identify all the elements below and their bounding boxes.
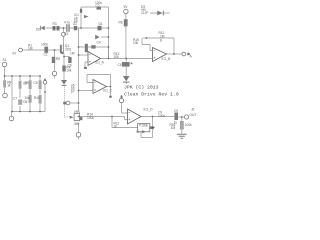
- left col3 comp bottom (diode): [18, 99, 22, 104]
- wire col4: [29, 76, 31, 112]
- connector circle top (drain): [61, 32, 65, 36]
- svg-text:C9: C9: [174, 109, 178, 113]
- svg-text:10k: 10k: [66, 69, 71, 73]
- wire left rail top: [5, 75, 42, 77]
- svg-text:4.7u: 4.7u: [64, 21, 70, 25]
- transistor Q1 source arrow: [61, 52, 63, 54]
- svg-text:100n: 100n: [41, 42, 48, 46]
- svg-text:10k: 10k: [133, 41, 138, 45]
- wire r12 top: [142, 38, 174, 54]
- wire col2: [11, 76, 14, 116]
- wire junction x54 down: [54, 50, 56, 71]
- wire input: [23, 49, 60, 51]
- electro cap at x127: [122, 62, 130, 67]
- wire op3 feedback: [87, 75, 111, 97]
- op1 plus bias mark: [84, 67, 87, 69]
- svg-text:10u: 10u: [25, 96, 30, 100]
- svg-text:1k: 1k: [136, 130, 140, 134]
- svg-text:50k: 50k: [74, 122, 79, 126]
- left col4 comp top: [29, 80, 32, 89]
- mark left of led circle: [63, 102, 66, 105]
- diode down x64: [61, 80, 67, 86]
- wire feedback op1 top: [79, 46, 109, 48]
- jack OUT1 circle: [182, 52, 186, 56]
- left col4 comp bottom: [29, 95, 32, 103]
- op-amp U1B: [153, 48, 167, 62]
- svg-text:D1: D1: [99, 22, 103, 26]
- svg-text:C9: C9: [34, 81, 38, 85]
- diode left (power): [40, 26, 45, 31]
- svg-text:Clean Drive Rev 1.0: Clean Drive Rev 1.0: [124, 92, 179, 98]
- op-amp U2A: [93, 80, 107, 94]
- diode vcc2: [157, 11, 164, 16]
- end mark op3 drop: [109, 96, 112, 98]
- svg-text:R5: R5: [56, 57, 60, 61]
- ground symbol: [177, 134, 187, 139]
- wire gnd drop: [181, 117, 183, 134]
- small box on x81: [80, 9, 82, 13]
- svg-text:D2: D2: [36, 28, 40, 32]
- capacitor C1 (input series): [44, 47, 48, 53]
- svg-text:J2: J2: [191, 108, 195, 112]
- mark out1 right: [187, 53, 190, 55]
- box C6 right of stub: [68, 57, 71, 63]
- svg-text:8: 8: [160, 39, 162, 43]
- left col5 comp bottom: [39, 95, 42, 104]
- diode arrow rail37: [95, 35, 99, 40]
- wire led link: [70, 102, 78, 104]
- cap C9 solid: [174, 113, 178, 121]
- left col3 comp top: [19, 81, 22, 89]
- wire col3: [19, 76, 21, 112]
- connector circle bus bottom: [76, 132, 81, 137]
- connector circle left bottom: [9, 116, 14, 121]
- wire col5: [39, 76, 41, 112]
- svg-text:A: A: [190, 55, 193, 59]
- svg-text:CLIP: CLIP: [141, 11, 149, 15]
- wire op1 plus stub: [85, 62, 88, 67]
- svg-text:IC1_A: IC1_A: [95, 61, 105, 65]
- svg-text:VR1: VR1: [74, 110, 80, 114]
- svg-text:P100k: P100k: [139, 124, 148, 128]
- svg-text:100k: 100k: [185, 123, 192, 127]
- wire op4 plus path: [79, 117, 128, 120]
- wire pot wiper loop: [141, 129, 153, 138]
- connector circle mid (op4 ref): [119, 98, 123, 102]
- small box x75 on rail: [74, 26, 77, 30]
- svg-text:C6: C6: [68, 64, 72, 68]
- diode D1 on rail: [98, 26, 102, 31]
- connector circle led: [66, 101, 70, 105]
- wire vcc drop: [125, 14, 127, 59]
- resistor to gnd: [180, 121, 184, 130]
- wire rail y37: [101, 36, 109, 38]
- wire op1 out rail: [101, 58, 153, 60]
- wire vcc2 diode: [150, 12, 170, 14]
- svg-text:IC1_C: IC1_C: [103, 89, 113, 93]
- pot body dark segment: [149, 126, 154, 129]
- wire circle78 bottom: [78, 137, 80, 140]
- resistor on vcc drop: [124, 19, 128, 26]
- wire bus x78: [78, 28, 80, 132]
- connector circle col6: [43, 81, 47, 85]
- wire rail y28: [46, 27, 109, 29]
- svg-text:9V: 9V: [124, 5, 129, 9]
- wire op2 out: [167, 53, 182, 55]
- connector circle left mid: [2, 62, 7, 67]
- svg-text:p4: p4: [74, 20, 78, 24]
- trimpot on bus: [74, 114, 80, 121]
- svg-text:1M: 1M: [70, 52, 75, 56]
- svg-text:1M: 1M: [28, 46, 33, 50]
- wire circle121: [122, 103, 128, 113]
- left col1 component: [3, 80, 6, 87]
- svg-text:10k: 10k: [114, 55, 119, 59]
- svg-text:100n: 100n: [158, 114, 165, 118]
- svg-text:1k: 1k: [114, 125, 118, 129]
- box R4 on x64: [62, 66, 65, 72]
- wire col1: [4, 76, 6, 93]
- svg-text:C4: C4: [97, 41, 101, 45]
- transistor Q1 channel: [62, 44, 65, 53]
- wire jack3 stem: [4, 67, 6, 76]
- svg-text:S1: S1: [3, 58, 7, 62]
- connector circle x54: [52, 71, 56, 75]
- box on feedback op1: [91, 45, 95, 48]
- left col5 comp top: [39, 80, 42, 89]
- wire stub to C6: [64, 56, 70, 58]
- component cluster x56 on rail: [53, 26, 56, 31]
- wire top corner: [81, 7, 109, 59]
- wire op3 out: [107, 86, 111, 88]
- cap C3 plates on rail28: [66, 24, 67, 32]
- pot box: [138, 124, 150, 132]
- wire circle55 mark: [54, 76, 56, 79]
- svg-text:R10: R10: [34, 96, 40, 100]
- jack OUT2 circle: [185, 115, 189, 119]
- mark above circle45: [44, 79, 46, 81]
- cap top x98: [96, 7, 101, 10]
- svg-text:C1: C1: [44, 53, 48, 57]
- wire op4 out: [141, 116, 174, 118]
- svg-text:100k: 100k: [87, 116, 94, 120]
- op-amp U1A: [88, 52, 101, 66]
- connector circle left col1: [3, 93, 8, 98]
- wire col6 circle45: [44, 81, 46, 112]
- svg-text:R3: R3: [53, 22, 57, 26]
- svg-text:JPK (C) 2013: JPK (C) 2013: [124, 85, 159, 91]
- trimpot arrow: [70, 116, 74, 119]
- svg-text:1k: 1k: [7, 84, 11, 88]
- jack IN circle: [19, 48, 23, 52]
- svg-text:C3: C3: [64, 32, 68, 36]
- svg-text:C5: C5: [118, 63, 122, 67]
- svg-text:R9: R9: [25, 81, 29, 85]
- svg-text:C2: C2: [96, 4, 100, 8]
- wire pot right: [152, 117, 156, 128]
- wire fb op1 down: [108, 47, 110, 59]
- wire op1 minus: [79, 54, 89, 56]
- wire diode64 dashed: [65, 87, 72, 118]
- svg-text:IC1_D: IC1_D: [144, 108, 154, 112]
- wire q1 source down: [63, 54, 65, 81]
- svg-text:C7: C7: [13, 97, 17, 101]
- svg-text:p7: p7: [71, 90, 75, 94]
- wire left rail bottom: [12, 111, 46, 113]
- junction dots: [4, 27, 183, 128]
- small arrow power: [84, 15, 89, 18]
- vcc connector circle: [124, 9, 128, 13]
- svg-text:D5: D5: [23, 100, 27, 104]
- wire r11: [112, 117, 138, 128]
- wire r15: [142, 45, 153, 51]
- wire out2 jack: [178, 116, 184, 118]
- mark above circle121: [121, 96, 123, 98]
- svg-text:R6: R6: [119, 21, 123, 25]
- op-amp U2B: [128, 109, 142, 124]
- wire cap-diode drop x127: [125, 59, 127, 85]
- resistor R? tall near op1: [85, 44, 88, 52]
- svg-text:OUT: OUT: [190, 113, 197, 117]
- zener diode down x127: [123, 76, 130, 83]
- transistor Q1 gate bar: [60, 45, 62, 53]
- box on x54 column: [52, 57, 55, 63]
- wire drain vcc: [62, 28, 64, 45]
- wire op3 plus: [79, 90, 94, 92]
- pot wiper arrow: [142, 130, 145, 133]
- svg-text:IN: IN: [13, 51, 17, 55]
- svg-text:IC1_B: IC1_B: [162, 57, 172, 61]
- op-amp input polarity marks: [89, 50, 155, 120]
- svg-text:1M: 1M: [171, 126, 176, 130]
